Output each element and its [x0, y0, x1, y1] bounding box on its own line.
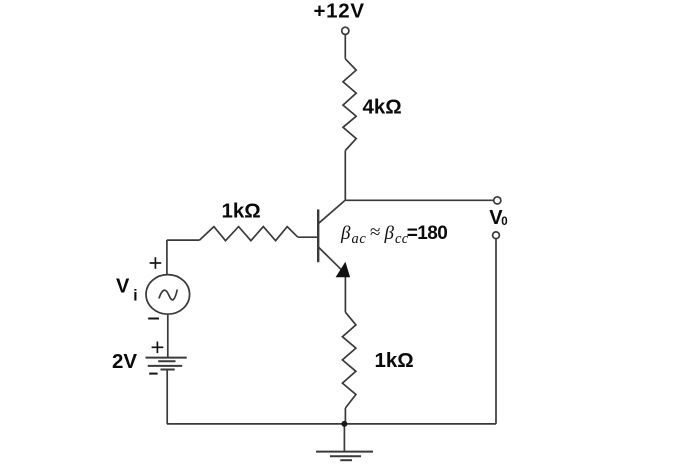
svg-text:≈: ≈ — [370, 222, 380, 243]
svg-text:2V: 2V — [112, 350, 137, 373]
svg-text:1kΩ: 1kΩ — [222, 199, 261, 222]
svg-text:4kΩ: 4kΩ — [363, 96, 402, 119]
svg-text:1kΩ: 1kΩ — [375, 349, 414, 372]
svg-text:i: i — [133, 288, 137, 305]
svg-text:β: β — [384, 223, 395, 244]
svg-text:0: 0 — [501, 216, 507, 228]
svg-text:V: V — [116, 275, 130, 297]
svg-text:ac: ac — [352, 231, 367, 247]
svg-text:+12V: +12V — [314, 0, 365, 22]
svg-text:β: β — [340, 223, 351, 244]
svg-text:=180: =180 — [407, 223, 447, 244]
